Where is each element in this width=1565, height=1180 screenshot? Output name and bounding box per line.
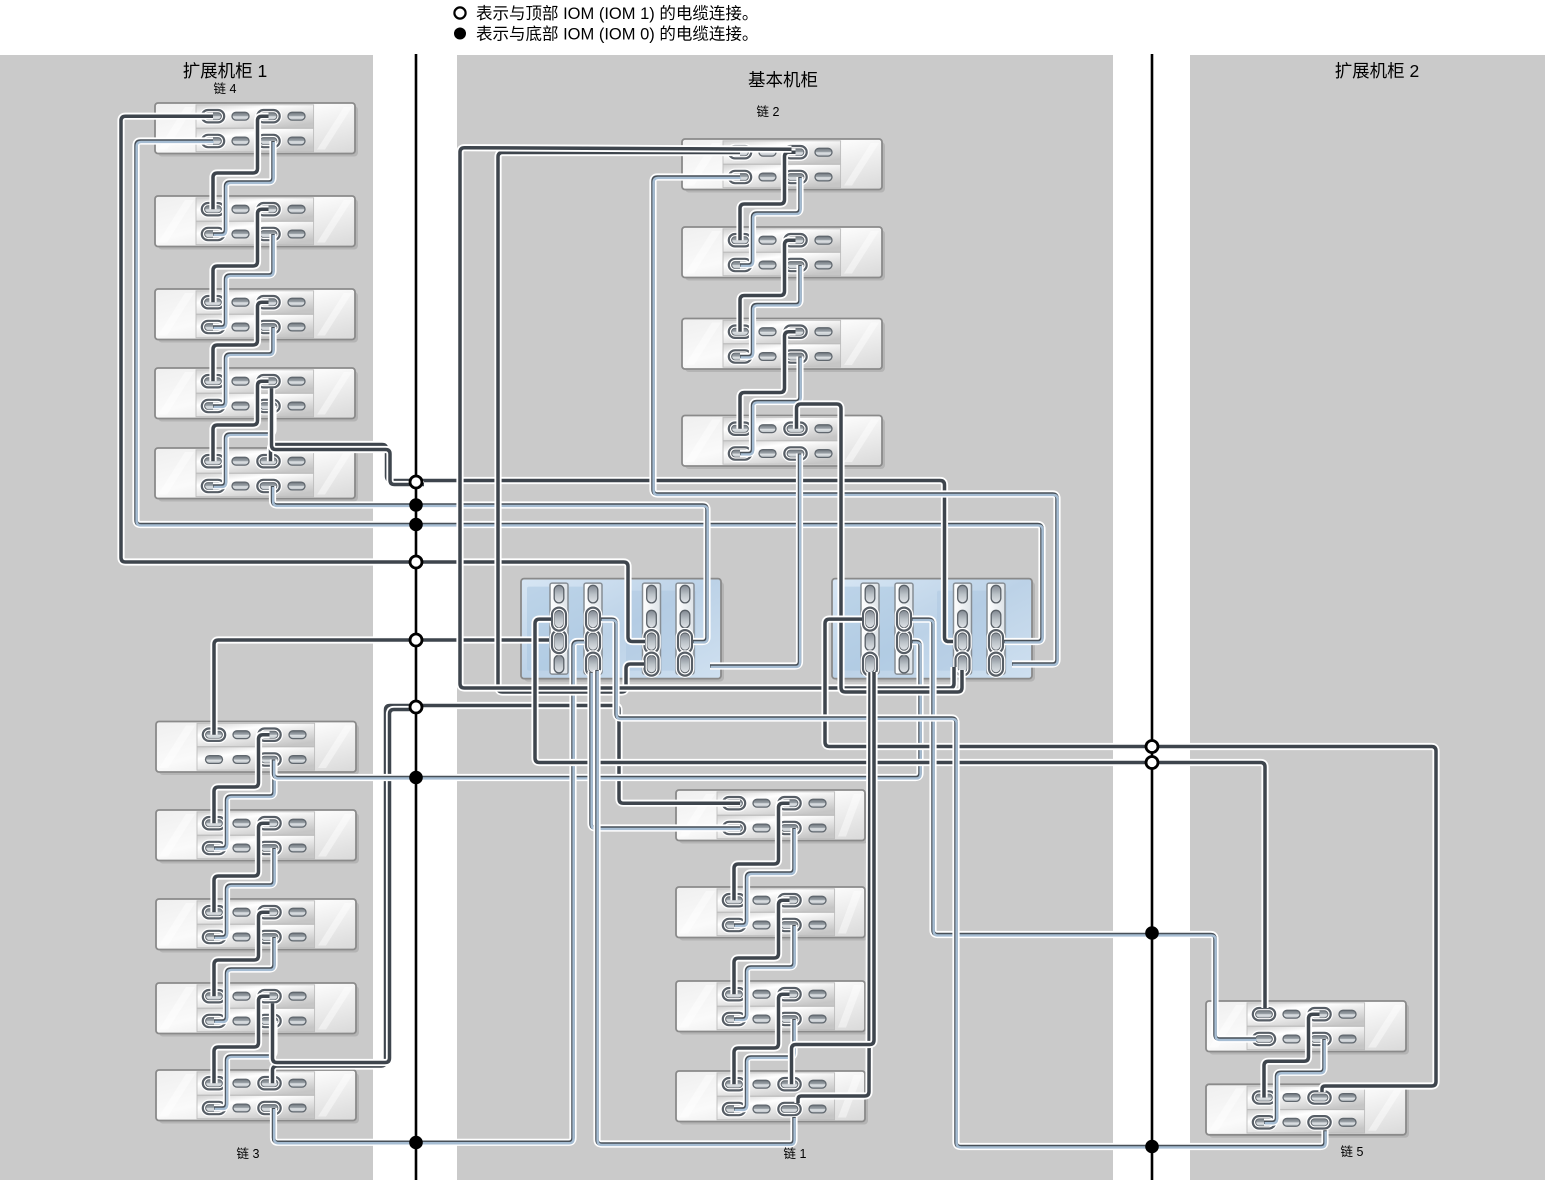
- svg-text:表示与底部 IOM (IOM 0) 的电缆连接。: 表示与底部 IOM (IOM 0) 的电缆连接。: [476, 25, 758, 44]
- svg-text:链 3: 链 3: [237, 1146, 260, 1161]
- svg-text:基本机柜: 基本机柜: [748, 70, 818, 90]
- svg-text:链 4: 链 4: [214, 81, 237, 96]
- svg-text:扩展机柜 2: 扩展机柜 2: [1335, 61, 1420, 81]
- svg-text:扩展机柜 1: 扩展机柜 1: [183, 61, 268, 81]
- svg-text:表示与顶部 IOM (IOM 1) 的电缆连接。: 表示与顶部 IOM (IOM 1) 的电缆连接。: [476, 4, 758, 23]
- svg-text:链 1: 链 1: [784, 1146, 807, 1161]
- svg-text:链 5: 链 5: [1341, 1144, 1364, 1159]
- svg-text:链 2: 链 2: [757, 104, 780, 119]
